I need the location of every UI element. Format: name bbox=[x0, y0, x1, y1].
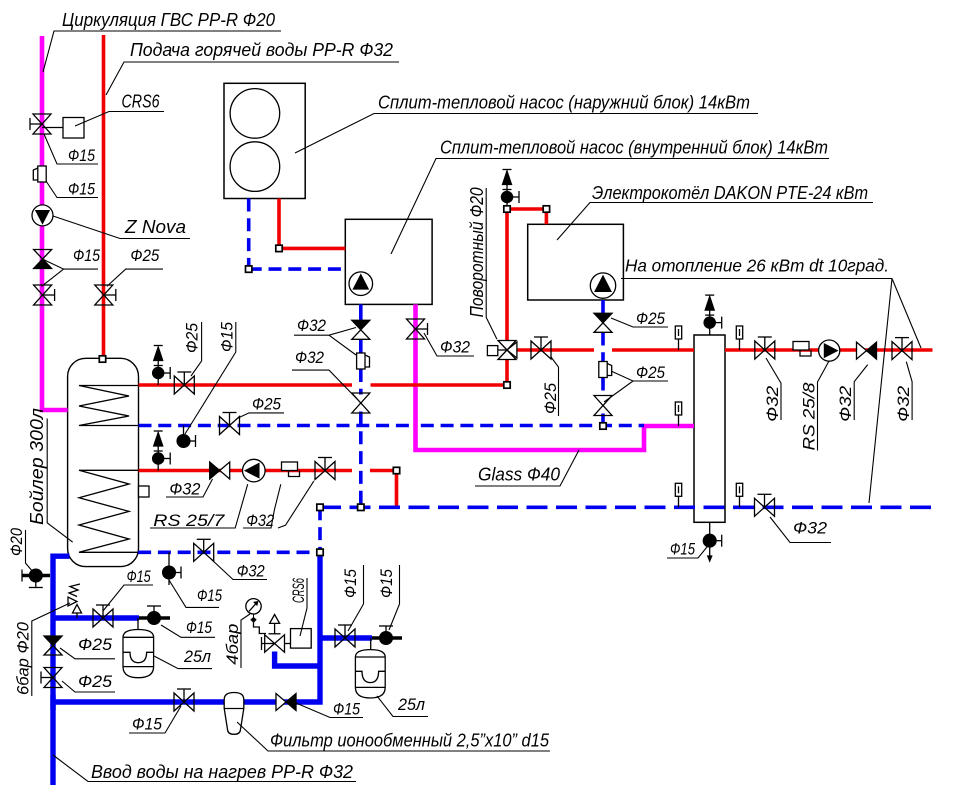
svg-text:Ф15: Ф15 bbox=[218, 322, 237, 352]
svg-text:Ф15: Ф15 bbox=[341, 569, 360, 598]
svg-text:CRS6: CRS6 bbox=[289, 578, 308, 603]
svg-text:Z Nova: Z Nova bbox=[124, 217, 186, 237]
svg-text:Ф25: Ф25 bbox=[636, 309, 665, 328]
svg-text:Glass Ф40: Glass Ф40 bbox=[478, 465, 560, 485]
svg-text:Ф25: Ф25 bbox=[78, 635, 113, 654]
svg-text:Ф25: Ф25 bbox=[130, 246, 159, 265]
svg-text:Бойлер 300л: Бойлер 300л bbox=[27, 408, 47, 525]
svg-text:Сплит-тепловой насос (наружний: Сплит-тепловой насос (наружний блок) 14к… bbox=[378, 93, 750, 113]
svg-text:Ф25: Ф25 bbox=[541, 382, 560, 414]
svg-text:Ф32: Ф32 bbox=[894, 385, 913, 422]
svg-text:Ф32: Ф32 bbox=[793, 519, 828, 538]
svg-text:Ф15: Ф15 bbox=[377, 569, 396, 598]
svg-text:Ф15: Ф15 bbox=[197, 586, 222, 605]
svg-text:Ф15: Ф15 bbox=[670, 540, 695, 559]
svg-text:Ф15: Ф15 bbox=[186, 618, 212, 637]
svg-text:Ф25: Ф25 bbox=[183, 323, 202, 353]
svg-text:RS 25/8: RS 25/8 bbox=[800, 382, 819, 451]
svg-text:Ф15: Ф15 bbox=[73, 246, 100, 265]
svg-text:Ф32: Ф32 bbox=[295, 348, 324, 367]
svg-text:Ф20: Ф20 bbox=[7, 528, 26, 556]
svg-text:Ф32: Ф32 bbox=[237, 562, 265, 581]
svg-text:Ф15: Ф15 bbox=[127, 567, 151, 586]
svg-text:Ф15: Ф15 bbox=[132, 715, 162, 734]
svg-text:Ф25: Ф25 bbox=[636, 363, 665, 382]
svg-text:Ф32: Ф32 bbox=[169, 480, 201, 499]
svg-text:6бар Ф20: 6бар Ф20 bbox=[14, 621, 33, 695]
svg-text:Ф32: Ф32 bbox=[246, 511, 274, 530]
svg-text:Ф15: Ф15 bbox=[68, 146, 95, 165]
svg-text:Ф32: Ф32 bbox=[763, 385, 782, 422]
svg-text:Фильтр ионообменный 2,5”x10” d: Фильтр ионообменный 2,5”x10” d15 bbox=[270, 731, 550, 751]
svg-text:Ф32: Ф32 bbox=[440, 338, 470, 357]
svg-text:Ввод воды на нагрев PP-R Ф32: Ввод воды на нагрев PP-R Ф32 bbox=[91, 762, 353, 782]
svg-text:Ф15: Ф15 bbox=[333, 700, 360, 719]
svg-text:Ф25: Ф25 bbox=[78, 672, 113, 691]
svg-text:Циркуляция ГВС PP-R Ф20: Циркуляция ГВС PP-R Ф20 bbox=[62, 10, 275, 30]
svg-text:Ф25: Ф25 bbox=[252, 395, 281, 414]
svg-text:На отопление 26 кВт dt 10град.: На отопление 26 кВт dt 10град. bbox=[625, 256, 889, 276]
svg-text:4бар: 4бар bbox=[223, 624, 242, 665]
svg-text:25л: 25л bbox=[183, 647, 211, 666]
svg-text:Электрокотёл DAKON PTE-24 кВт: Электрокотёл DAKON PTE-24 кВт bbox=[592, 183, 868, 203]
svg-text:Поворотный Ф20: Поворотный Ф20 bbox=[467, 187, 487, 317]
svg-text:Подача горячей воды PP-R Ф32: Подача горячей воды PP-R Ф32 bbox=[130, 40, 393, 60]
svg-text:CRS6: CRS6 bbox=[122, 92, 161, 112]
svg-text:Ф32: Ф32 bbox=[836, 385, 855, 422]
svg-text:Сплит-тепловой насос (внутренн: Сплит-тепловой насос (внутренний блок) 1… bbox=[440, 138, 828, 158]
svg-text:Ф32: Ф32 bbox=[297, 316, 326, 335]
svg-text:25л: 25л bbox=[397, 695, 425, 714]
svg-text:RS 25/7: RS 25/7 bbox=[153, 511, 225, 530]
svg-text:Ф15: Ф15 bbox=[68, 180, 95, 199]
